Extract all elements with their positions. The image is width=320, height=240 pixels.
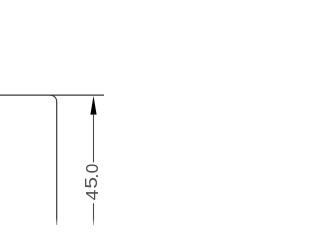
dimension arrowhead [90,96,96,115]
svg-text:0: 0 [82,163,102,173]
dimension text 45.0 [82,163,102,200]
top horizontal edge [0,94,104,96]
dimension line lower segment [93,203,95,225]
svg-text:5: 5 [82,177,101,189]
dimension line upper segment [93,114,95,162]
filleted corner and vertical edge [50,95,57,225]
svg-text:4: 4 [82,190,102,201]
